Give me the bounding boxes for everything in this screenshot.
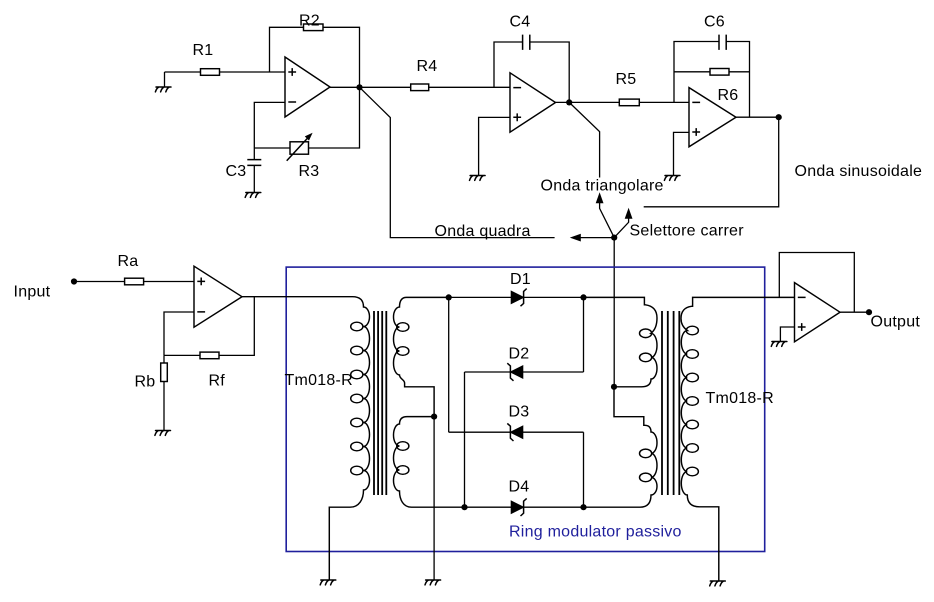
resistor R1 — [201, 69, 220, 76]
svg-text:R6: R6 — [718, 87, 739, 104]
op-amp U4 — [194, 266, 242, 327]
wire D2 row to top rail — [583, 297, 585, 372]
transformer T1 primary loops — [351, 322, 363, 331]
wire U3 + input to ground — [674, 132, 690, 175]
wire D2 row — [465, 371, 584, 373]
wire top rail to D3 row — [448, 297, 450, 432]
svg-text:Rf: Rf — [209, 373, 226, 390]
wire feedback node to C3 — [253, 148, 255, 159]
wire T1 center tap to ground — [433, 417, 435, 580]
transformer T2 secondary winding — [681, 297, 795, 580]
svg-text:Onda triangolare: Onda triangolare — [541, 178, 664, 195]
capacitor C4 — [523, 35, 530, 50]
wire C6 right branch — [726, 42, 749, 118]
svg-text:Selettore carrer: Selettore carrer — [630, 223, 745, 240]
wire square wave from U1 output — [360, 87, 555, 237]
variable resistor R3 — [290, 142, 309, 154]
svg-text:Onda sinusoidale: Onda sinusoidale — [795, 163, 923, 180]
resistor Rf — [200, 352, 219, 359]
wire C4 left branch — [494, 42, 522, 87]
switch selector arrow to square wave — [580, 237, 615, 239]
wire R6 right branch — [729, 71, 750, 73]
wire U2 + input to ground — [479, 117, 510, 175]
op-amp U1 — [285, 57, 330, 117]
svg-text:R2: R2 — [299, 13, 320, 30]
transformer T2 primary bottom winding — [584, 387, 658, 507]
wire R1 input to ground stem — [164, 72, 166, 87]
diode D4 — [511, 501, 523, 513]
resistor R2 — [304, 24, 324, 31]
node U3 output junction — [776, 114, 782, 120]
wire R1 to op-amp U1 + input — [220, 71, 286, 73]
svg-text:C4: C4 — [510, 14, 531, 31]
wire diode ring bottom rail — [465, 506, 584, 508]
svg-text:Tm018-R: Tm018-R — [285, 372, 353, 389]
wire feedback node to Rb — [163, 355, 165, 363]
wire feedback node to Rf — [164, 354, 200, 356]
transformer T2 secondary loops — [686, 326, 698, 335]
transformer T2 primary top loops — [640, 329, 652, 338]
op-amp U2 — [510, 73, 556, 132]
transformer T1 secondary bottom loops — [397, 442, 409, 451]
resistor R6 — [710, 69, 729, 76]
wire diode ring top rail — [449, 296, 584, 298]
wire R6 left branch — [674, 71, 710, 73]
diode D1 — [511, 291, 523, 303]
svg-text:R1: R1 — [193, 42, 214, 59]
svg-text:Tm018-R: Tm018-R — [706, 390, 774, 407]
wire Rb to ground — [163, 382, 165, 431]
svg-text:C6: C6 — [704, 14, 725, 31]
node top rail left — [446, 294, 452, 300]
svg-text:D3: D3 — [509, 404, 530, 421]
resistor Ra — [125, 278, 144, 285]
switch selector arrow to sine wave — [614, 218, 628, 238]
wire U1 output — [330, 86, 411, 88]
wire R3 to U1 output node — [309, 87, 360, 148]
wire U5 + input to ground — [780, 327, 794, 341]
ground at R1 input — [155, 87, 171, 92]
svg-text:D4: D4 — [509, 479, 530, 496]
svg-text:Input: Input — [14, 284, 51, 301]
wire Ra to U4 + input — [144, 281, 194, 283]
wire D3 row — [449, 431, 584, 433]
transformer T2 core — [662, 311, 679, 495]
node U2 output junction — [566, 99, 572, 105]
svg-text:C3: C3 — [226, 163, 247, 180]
op-amp U5 — [795, 283, 841, 342]
wire triangle wave from U2 output — [569, 102, 599, 177]
wire U3 output — [736, 116, 779, 118]
svg-text:D2: D2 — [509, 346, 530, 363]
node selector pole — [611, 235, 617, 241]
wire D3 row to bottom rail — [583, 432, 585, 507]
svg-text:Output: Output — [871, 314, 921, 331]
wire U5 output — [840, 311, 869, 313]
ground below U2 — [470, 176, 486, 181]
wire U1 - input to feedback node — [254, 102, 285, 148]
transformer T2 primary bottom loops — [640, 449, 652, 458]
transformer T1 primary winding with U4 output wire and ground lead — [242, 297, 370, 580]
diode D2 — [510, 366, 522, 378]
wire Rf to U4 output — [219, 297, 254, 356]
wire selector pole to carrier center tap — [613, 238, 615, 387]
node T1 center tap — [431, 414, 437, 420]
svg-text:R3: R3 — [299, 163, 320, 180]
svg-text:Rb: Rb — [135, 374, 156, 391]
resistor R4 — [411, 84, 429, 91]
transformer T1 secondary top winding — [394, 297, 449, 416]
wire U4 - input to feedback node — [164, 312, 194, 355]
wire U2 output to R5 — [556, 101, 620, 103]
resistor Rb — [161, 363, 168, 382]
ground below C3 — [245, 193, 261, 198]
node output terminal — [866, 309, 872, 315]
capacitor C3 — [247, 160, 261, 166]
node U1 output junction — [356, 84, 362, 90]
wire R5 to U3 - input — [639, 101, 689, 103]
transformer T2 primary top winding — [584, 297, 658, 386]
wire feedback node to R3 — [254, 147, 290, 149]
resistor R5 — [619, 99, 639, 106]
wire U5 feedback loop — [779, 253, 854, 313]
wire C6 left branch — [674, 42, 719, 103]
svg-text:Ring modulator passivo: Ring modulator passivo — [509, 524, 682, 541]
node input terminal — [71, 278, 77, 284]
wire R2 to U1 output node — [323, 27, 360, 87]
svg-text:Onda quadra: Onda quadra — [435, 223, 531, 240]
wire C4 right branch to U2 output — [530, 42, 569, 102]
wire R4 to U2 - input — [429, 86, 510, 88]
ground below U5 — [771, 342, 787, 347]
svg-text:D1: D1 — [510, 271, 531, 288]
ring modulator enclosure box — [286, 267, 765, 551]
diode D3 — [510, 426, 522, 438]
wire input terminal to Ra — [74, 281, 125, 283]
node bottom rail left — [461, 504, 467, 510]
transformer T1 secondary bottom winding — [394, 417, 465, 508]
op-amp U3 — [689, 88, 736, 147]
capacitor C6 — [719, 35, 726, 50]
svg-text:R4: R4 — [417, 58, 438, 75]
wire C3 to ground — [253, 166, 255, 192]
ground below T2 secondary — [710, 581, 726, 586]
node T2 center tap — [611, 384, 617, 390]
node bottom rail right — [580, 504, 586, 510]
wire D2 row to bottom rail — [464, 372, 466, 507]
transformer T1 core — [374, 311, 386, 495]
ground below U3 — [664, 176, 680, 181]
node top rail right — [580, 294, 586, 300]
ground below T1 primary — [320, 580, 336, 585]
wire ground to R1 — [165, 71, 201, 73]
svg-text:R5: R5 — [616, 71, 637, 88]
transformer T1 secondary top loops — [397, 323, 409, 332]
ground below T1 center tap — [425, 580, 441, 585]
svg-text:Ra: Ra — [118, 253, 139, 270]
wire U1 + node up to R2 — [270, 27, 304, 72]
ground below Rb — [155, 431, 171, 436]
wire sine output down and left — [644, 117, 779, 207]
switch selector arrow to triangle wave — [600, 202, 615, 238]
